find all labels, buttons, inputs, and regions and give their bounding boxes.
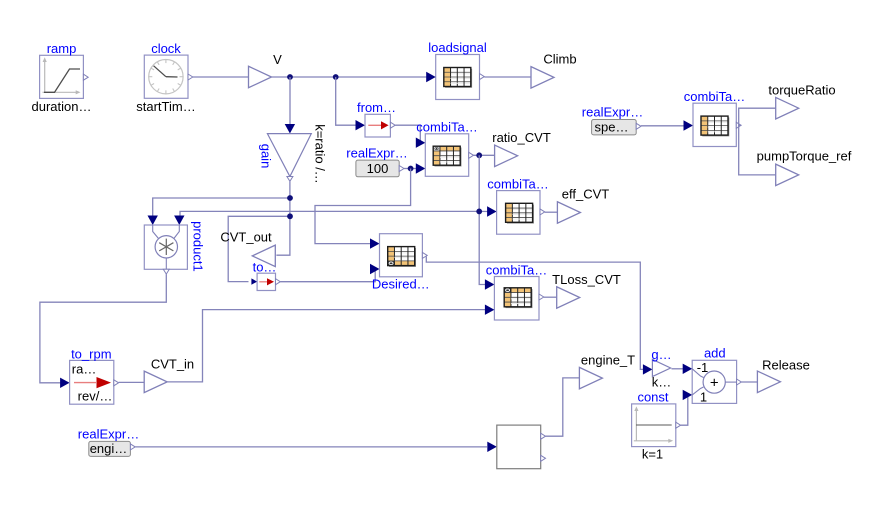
label Release: [762, 358, 810, 373]
port speExpression.y: [636, 123, 641, 129]
port add.y: [737, 379, 742, 385]
svg-text:to…: to…: [253, 260, 277, 275]
port engiExpression.y: [130, 444, 135, 450]
label add: [704, 345, 726, 360]
label gain (rotated): [259, 144, 274, 169]
label CVT_out: [220, 230, 272, 245]
label combiTa...(1): [416, 120, 477, 135]
svg-text:torqueRatio: torqueRatio: [768, 82, 835, 97]
label clock: [151, 41, 181, 56]
svg-text:realExpr…: realExpr…: [78, 427, 139, 442]
label V: [273, 52, 282, 67]
input arrow Desired.u1: [370, 238, 380, 248]
wire const.y to add.u2: [681, 395, 688, 425]
label k=ratio /... (rotated): [313, 124, 328, 184]
port ramp.y: [83, 74, 88, 80]
svg-text:startTim…: startTim…: [136, 99, 195, 114]
svg-text:realExpr…: realExpr…: [346, 146, 407, 161]
label realExpr... (spe): [582, 105, 643, 120]
input arrow TLoss.u2: [485, 305, 495, 315]
connector CVT_out (input, points left): [252, 245, 275, 267]
port eff.y: [540, 209, 545, 215]
junction clock-net B: [333, 74, 339, 80]
wire to pumpTorque_ref: [739, 125, 776, 175]
svg-text:k…: k…: [652, 375, 672, 390]
connector TLoss_CVT (output): [557, 287, 580, 309]
input arrow TLoss.u1: [485, 279, 495, 289]
label duration...: [32, 99, 92, 114]
svg-text:engine_T: engine_T: [581, 353, 635, 368]
svg-text:combiTa…: combiTa…: [486, 262, 547, 277]
wire combiTable1.y to ratio_CVT: [474, 154, 495, 156]
wire ratio-net to product1.u2: [180, 211, 489, 217]
wire gain.y vertical: [276, 182, 290, 256]
wire loadsignal.y to Climb: [484, 76, 531, 78]
label const: [637, 389, 668, 404]
block to_rpm (unit conversion): [70, 360, 114, 404]
label loadsignal: [428, 40, 487, 55]
svg-text:Release: Release: [762, 358, 810, 373]
svg-text:ramp: ramp: [47, 41, 77, 56]
label Desired...: [372, 277, 430, 292]
port engineBlock.y1: [541, 433, 546, 439]
block engine (empty gray block): [497, 425, 541, 469]
svg-text:1: 1: [700, 390, 707, 405]
label product1 (rotated): [190, 221, 205, 272]
label TLoss_CVT: [552, 272, 621, 287]
svg-text:g…: g…: [651, 347, 671, 362]
wire to_rpm.y to CVT_in: [119, 381, 145, 383]
svg-text:combiTa…: combiTa…: [416, 120, 477, 135]
port from.y: [390, 122, 395, 128]
label to...: [253, 260, 277, 275]
label ratio_CVT: [492, 130, 551, 145]
wire realExpression100.y to combiTable1.u2: [404, 168, 416, 170]
wire V to loadsignal: [272, 76, 427, 78]
block const (Constant k=1): [632, 404, 676, 447]
label pumpTorque_ref: [757, 149, 852, 164]
svg-text:pumpTorque_ref: pumpTorque_ref: [757, 149, 852, 164]
svg-text:Climb: Climb: [543, 52, 576, 67]
wire Desired.y to gainT: [426, 257, 644, 370]
svg-text:product1: product1: [190, 221, 205, 272]
block clock (Clock source): [144, 55, 188, 98]
input arrow eff.u: [487, 206, 497, 216]
wire combiTableTop.y split: [739, 108, 776, 125]
junction ratio-net mid: [476, 209, 482, 215]
wire add.y to Release: [741, 381, 757, 383]
wire gainT.y to add.u1: [672, 368, 685, 370]
connector eff_CVT (output): [557, 202, 580, 224]
junction gain-net B: [287, 213, 293, 219]
label 1 (add): [700, 390, 707, 405]
block Desired (CombiTable2D): [380, 234, 423, 277]
input arrow Desired.u2: [370, 264, 380, 274]
input arrow engineBlock.u: [487, 442, 497, 452]
wire TLoss.y to TLoss_CVT: [544, 296, 557, 298]
port to.y: [276, 279, 281, 285]
input arrow combiTable1.u1: [416, 138, 426, 148]
svg-text:combiTa…: combiTa…: [487, 176, 548, 191]
input arrow to_rpm.u: [60, 378, 70, 388]
wire spe to combiTable-top: [641, 125, 684, 127]
port clock.y: [188, 74, 193, 80]
svg-text:rev/…: rev/…: [78, 389, 113, 404]
block to... (unit conversion): [257, 273, 275, 290]
label k=1: [642, 447, 663, 462]
label combiTa...(eff): [487, 176, 548, 191]
connector engine_T (output): [579, 367, 602, 389]
port TLoss.y: [539, 294, 544, 300]
wire ratio-net vertical: [479, 155, 486, 284]
input arrow combiTable1.u2: [416, 163, 426, 173]
label Climb: [543, 52, 576, 67]
svg-text:V: V: [273, 52, 282, 67]
block gain (Gain, rotated 270): [267, 134, 311, 177]
svg-text:+: +: [710, 374, 719, 391]
connector CVT_in (input): [144, 371, 167, 393]
svg-text:CVT_out: CVT_out: [220, 230, 272, 245]
label g...: [651, 347, 671, 362]
connector ratio_CVT (output): [495, 145, 518, 167]
svg-text:100: 100: [367, 161, 389, 176]
svg-text:add: add: [704, 345, 726, 360]
block add (Add -1/+1): [692, 360, 736, 403]
block realExpression engi...: [89, 441, 131, 456]
block gainT g... (Gain): [652, 359, 670, 376]
port loadsignal.y: [480, 74, 485, 80]
svg-text:ra…: ra…: [72, 362, 97, 377]
port const.y: [676, 422, 681, 428]
svg-text:-1: -1: [697, 360, 709, 375]
input arrow product1.u2: [174, 216, 184, 226]
wire CVT_in to TLoss.u2: [167, 310, 485, 382]
junction ratio-net top: [476, 152, 482, 158]
svg-text:loadsignal: loadsignal: [428, 40, 487, 55]
svg-text:spe…: spe…: [595, 120, 629, 135]
block combiTable1 (CombiTable2D ratio): [425, 134, 468, 177]
svg-text:Desired…: Desired…: [372, 277, 430, 292]
svg-text:k=ratio /…: k=ratio /…: [313, 124, 328, 184]
label CVT_in: [151, 357, 194, 372]
svg-text:TLoss_CVT: TLoss_CVT: [552, 272, 621, 287]
connector torqueRatio (output): [776, 97, 799, 119]
svg-text:realExpr…: realExpr…: [582, 105, 643, 120]
svg-text:k=1: k=1: [642, 447, 663, 462]
port engineBlock.y2: [541, 455, 546, 461]
wire clock-net to from.u: [336, 77, 365, 130]
connector Climb (output): [531, 67, 554, 89]
wire clock-net to gain.u: [285, 77, 295, 134]
wire engi to engine block: [135, 446, 487, 448]
port combiTable1.y: [469, 152, 474, 158]
input arrow combiTableTop.u: [684, 120, 694, 130]
label k... (gainT): [652, 375, 672, 390]
label to_rpm: [71, 346, 111, 361]
svg-text:CVT_in: CVT_in: [151, 357, 194, 372]
label -1: [697, 360, 709, 375]
label ramp: [47, 41, 77, 56]
block product1 (Product, rotated): [144, 225, 187, 269]
wire gain-net to product1.u1: [153, 198, 290, 217]
wire engineBlock.y1 to engine_T: [546, 378, 580, 436]
connector V (output): [249, 66, 272, 88]
wire product1.y to to_rpm: [40, 274, 166, 383]
wire 100-net to Desired.u1: [315, 169, 411, 244]
port product1.y: [163, 269, 169, 274]
port realExpression100.y: [399, 166, 404, 172]
block realExpression 100: [356, 160, 399, 177]
label combiTa...(TLoss): [486, 262, 547, 277]
input arrow to.u: [251, 278, 257, 284]
block combiTable top-right (CombiTable1Ds): [693, 103, 736, 146]
connector pumpTorque_ref (output): [776, 164, 799, 186]
block combiTable TLoss (CombiTable2D): [494, 277, 539, 321]
label eff_CVT: [562, 187, 610, 202]
label engine_T: [581, 353, 635, 368]
label combiTa...(top): [684, 89, 745, 104]
wire to.y to Desired.u2: [280, 269, 375, 282]
block realExpression spe...: [592, 120, 637, 135]
port combiTableTop.y: [736, 122, 741, 128]
block combiTable eff (CombiTable1Ds): [497, 191, 540, 235]
junction 100-net: [408, 166, 414, 172]
input arrow add.u1: [683, 364, 693, 374]
svg-text:clock: clock: [151, 41, 181, 56]
label startTim...: [136, 99, 195, 114]
label from...: [357, 100, 396, 115]
junction clock-net A: [287, 74, 293, 80]
label torqueRatio: [768, 82, 835, 97]
block from... (unit conversion): [365, 114, 390, 137]
wire clock.y to V: [193, 76, 249, 78]
svg-text:duration…: duration…: [32, 99, 92, 114]
input arrow product1.u1: [148, 216, 158, 226]
input arrow loadsignal.u: [426, 72, 436, 82]
wire gain-net to to-block: [228, 216, 290, 281]
svg-text:combiTa…: combiTa…: [684, 89, 745, 104]
svg-text:eff_CVT: eff_CVT: [562, 187, 610, 202]
port gain.y: [287, 177, 293, 182]
input arrow gainT.u: [643, 364, 653, 374]
block loadsignal (CombiTable1Ds): [436, 55, 480, 100]
svg-text:from…: from…: [357, 100, 396, 115]
label realExpr... (engi): [78, 427, 139, 442]
label realExpr... (100): [346, 146, 407, 161]
input arrow add.u2: [683, 390, 693, 400]
wire eff.y to eff_CVT: [545, 211, 558, 213]
svg-text:to_rpm: to_rpm: [71, 346, 111, 361]
port to_rpm.y: [114, 380, 119, 386]
svg-text:engi…: engi…: [90, 441, 128, 456]
junction gain-net A: [287, 195, 293, 201]
svg-text:gain: gain: [259, 144, 274, 169]
port Desired.y: [422, 252, 427, 258]
wire from.y to combiTable1.u1: [395, 125, 420, 143]
svg-text:ratio_CVT: ratio_CVT: [492, 130, 551, 145]
connector Release (output): [757, 371, 780, 393]
svg-text:const: const: [637, 389, 668, 404]
block ramp (Ramp source): [40, 55, 84, 98]
